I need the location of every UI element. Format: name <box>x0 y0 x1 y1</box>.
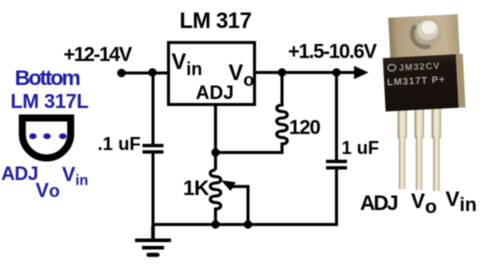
label: TO-92 pin Vo <box>36 181 60 201</box>
label: C1 value .1 uF <box>98 135 141 154</box>
label: C2 value 1 uF <box>342 139 380 157</box>
label: TO-92 pin ADJ <box>1 165 38 184</box>
regulator IC U1 LM317 box <box>169 43 255 105</box>
Q1 logo mark <box>388 64 396 71</box>
resistor R1 120 <box>216 73 288 153</box>
label: TO-92 pin Vin <box>62 165 88 185</box>
TO-92 pin dot Vin <box>59 133 66 139</box>
capacitor C1 .1uF top plate <box>143 144 164 147</box>
transistor Q1 photo: tab and body <box>381 14 466 112</box>
potentiometer R2 1K body <box>210 170 221 225</box>
ground symbol <box>135 226 171 255</box>
label: Q1 pin Vo <box>411 191 437 213</box>
Q1 plastic body <box>383 54 459 111</box>
Q1 body side edge <box>455 54 466 108</box>
junction: output node / R1 branch <box>278 68 286 76</box>
wire: R2 wiper to ground rail <box>231 187 248 225</box>
TO-92 package bottom view outline <box>22 118 70 158</box>
label: blue LM 317L caption <box>11 92 89 112</box>
label: Q1 pin ADJ <box>360 193 397 214</box>
capacitor C2 1uF bottom plate <box>326 166 347 169</box>
label: U1 pin ADJ <box>196 84 234 103</box>
label: U1 pin Vin <box>172 51 203 73</box>
label: U1 pin Vo <box>229 62 255 84</box>
label: blue Bottom caption <box>15 68 79 90</box>
junction: ADJ node <box>211 148 219 156</box>
label: Q1 pin Vin <box>446 189 477 211</box>
label: +12-14V input voltage <box>64 45 131 65</box>
wire: input to regulator Vin <box>122 72 169 75</box>
Q1 tab hole <box>409 17 442 50</box>
R2 wiper arrowhead <box>221 180 236 191</box>
Q1 leg Vo <box>415 108 425 138</box>
junction: wiper on ground rail <box>244 220 252 228</box>
label: title LM 317 <box>180 10 252 32</box>
wire: C1 to ground rail <box>152 153 155 226</box>
wire: ground rail <box>152 223 339 226</box>
wire: C2 to ground rail <box>335 169 338 225</box>
transistor Q1 photo: legs <box>398 108 442 191</box>
label: R2 value 1K <box>183 178 209 199</box>
wire: ADJ pin down <box>214 104 217 170</box>
TO-92 pin dot Vo <box>43 133 50 139</box>
capacitor C1 .1uF bottom plate <box>143 150 164 153</box>
label: +1.5-10.6V output voltage <box>288 42 376 62</box>
input terminal dot <box>117 69 126 78</box>
output arrowhead <box>354 66 369 79</box>
capacitor C2 1uF top plate <box>326 160 347 163</box>
junction: input node / C1 branch <box>148 68 156 76</box>
Q1 leg Vin <box>432 108 442 138</box>
junction: R2 bottom on ground rail <box>211 220 219 228</box>
label: R1 value 120 <box>289 118 320 138</box>
junction: output node / C2 branch <box>332 68 340 76</box>
wire: input node down to C1 <box>152 73 155 145</box>
Q1 leg ADJ <box>398 108 408 138</box>
wire: output node down to C2 <box>335 73 338 161</box>
TO-92 pin dot ADJ <box>29 133 36 139</box>
Q1 metal tab <box>388 14 460 59</box>
wire: Vo output <box>254 71 356 74</box>
